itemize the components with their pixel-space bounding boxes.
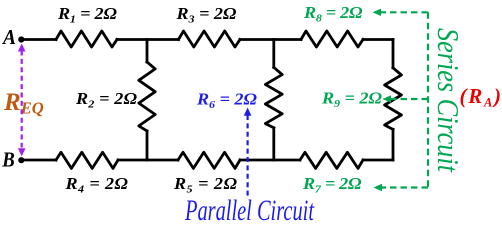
- green dashed line to R9: [391, 98, 428, 100]
- svg-text:R5 = 2Ω: R5 = 2Ω: [173, 175, 237, 196]
- wire R1 to node of R2 branch: [117, 38, 179, 41]
- wire R9 top lead from corner: [392, 40, 395, 68]
- resistor R1: [56, 31, 117, 47]
- wire R7 to bottom-right corner: [363, 159, 393, 162]
- wire R2 top lead: [146, 40, 149, 63]
- svg-text:Parallel Circuit: Parallel Circuit: [184, 194, 314, 227]
- resistor R2: [139, 62, 155, 131]
- wire R4 to node of R2 branch bottom: [118, 159, 178, 162]
- resistor R5: [178, 152, 240, 168]
- resistor R7: [300, 152, 363, 168]
- svg-text:R6 = 2Ω: R6 = 2Ω: [196, 90, 257, 111]
- svg-text:R4 = 2Ω: R4 = 2Ω: [64, 175, 128, 196]
- wire R8 to top-right corner: [363, 38, 393, 41]
- arrowhead to R8: [373, 9, 382, 16]
- Series Circuit bracket (green dashed): [373, 9, 429, 192]
- arrowhead to R9: [383, 95, 392, 102]
- wire R5 to R7: [240, 159, 300, 162]
- node A: [18, 36, 24, 42]
- wire R3 to node of R6 branch: [240, 38, 301, 41]
- arrowhead to R7: [374, 184, 383, 191]
- resistor R9: [385, 68, 402, 130]
- green dashed line to R7: [382, 186, 428, 188]
- wire R6 top lead: [272, 40, 275, 68]
- wire R2 bottom lead: [146, 131, 149, 160]
- svg-text:B: B: [1, 148, 14, 172]
- wire node A to R1: [23, 38, 56, 41]
- svg-text:R3 = 2Ω: R3 = 2Ω: [175, 5, 236, 26]
- resistor R4: [56, 152, 118, 168]
- svg-text:R8 = 2Ω: R8 = 2Ω: [303, 4, 363, 25]
- node B: [18, 157, 24, 163]
- resistor R3: [179, 31, 241, 47]
- REQ measurement arrow (purple dashed, double-headed): [18, 44, 26, 157]
- resistor R6: [265, 67, 282, 127]
- svg-text:Series Circuit: Series Circuit: [431, 28, 466, 173]
- resistor R8: [301, 31, 363, 47]
- svg-text:R9 = 2Ω: R9 = 2Ω: [321, 89, 382, 110]
- Parallel Circuit arrow (blue dashed, pointing up to R6): [244, 108, 252, 197]
- green dashed vertical line: [427, 12, 429, 187]
- svg-text:R2 = 2Ω: R2 = 2Ω: [75, 90, 137, 111]
- wire R6 bottom lead: [272, 128, 275, 160]
- wire node B to R4: [23, 159, 56, 162]
- svg-text:R1 = 2Ω: R1 = 2Ω: [57, 5, 117, 26]
- svg-text:R7 = 2Ω: R7 = 2Ω: [302, 175, 362, 196]
- wire R9 bottom lead to corner: [392, 129, 395, 160]
- svg-text:A: A: [1, 25, 16, 49]
- green dashed line to R8: [381, 11, 428, 13]
